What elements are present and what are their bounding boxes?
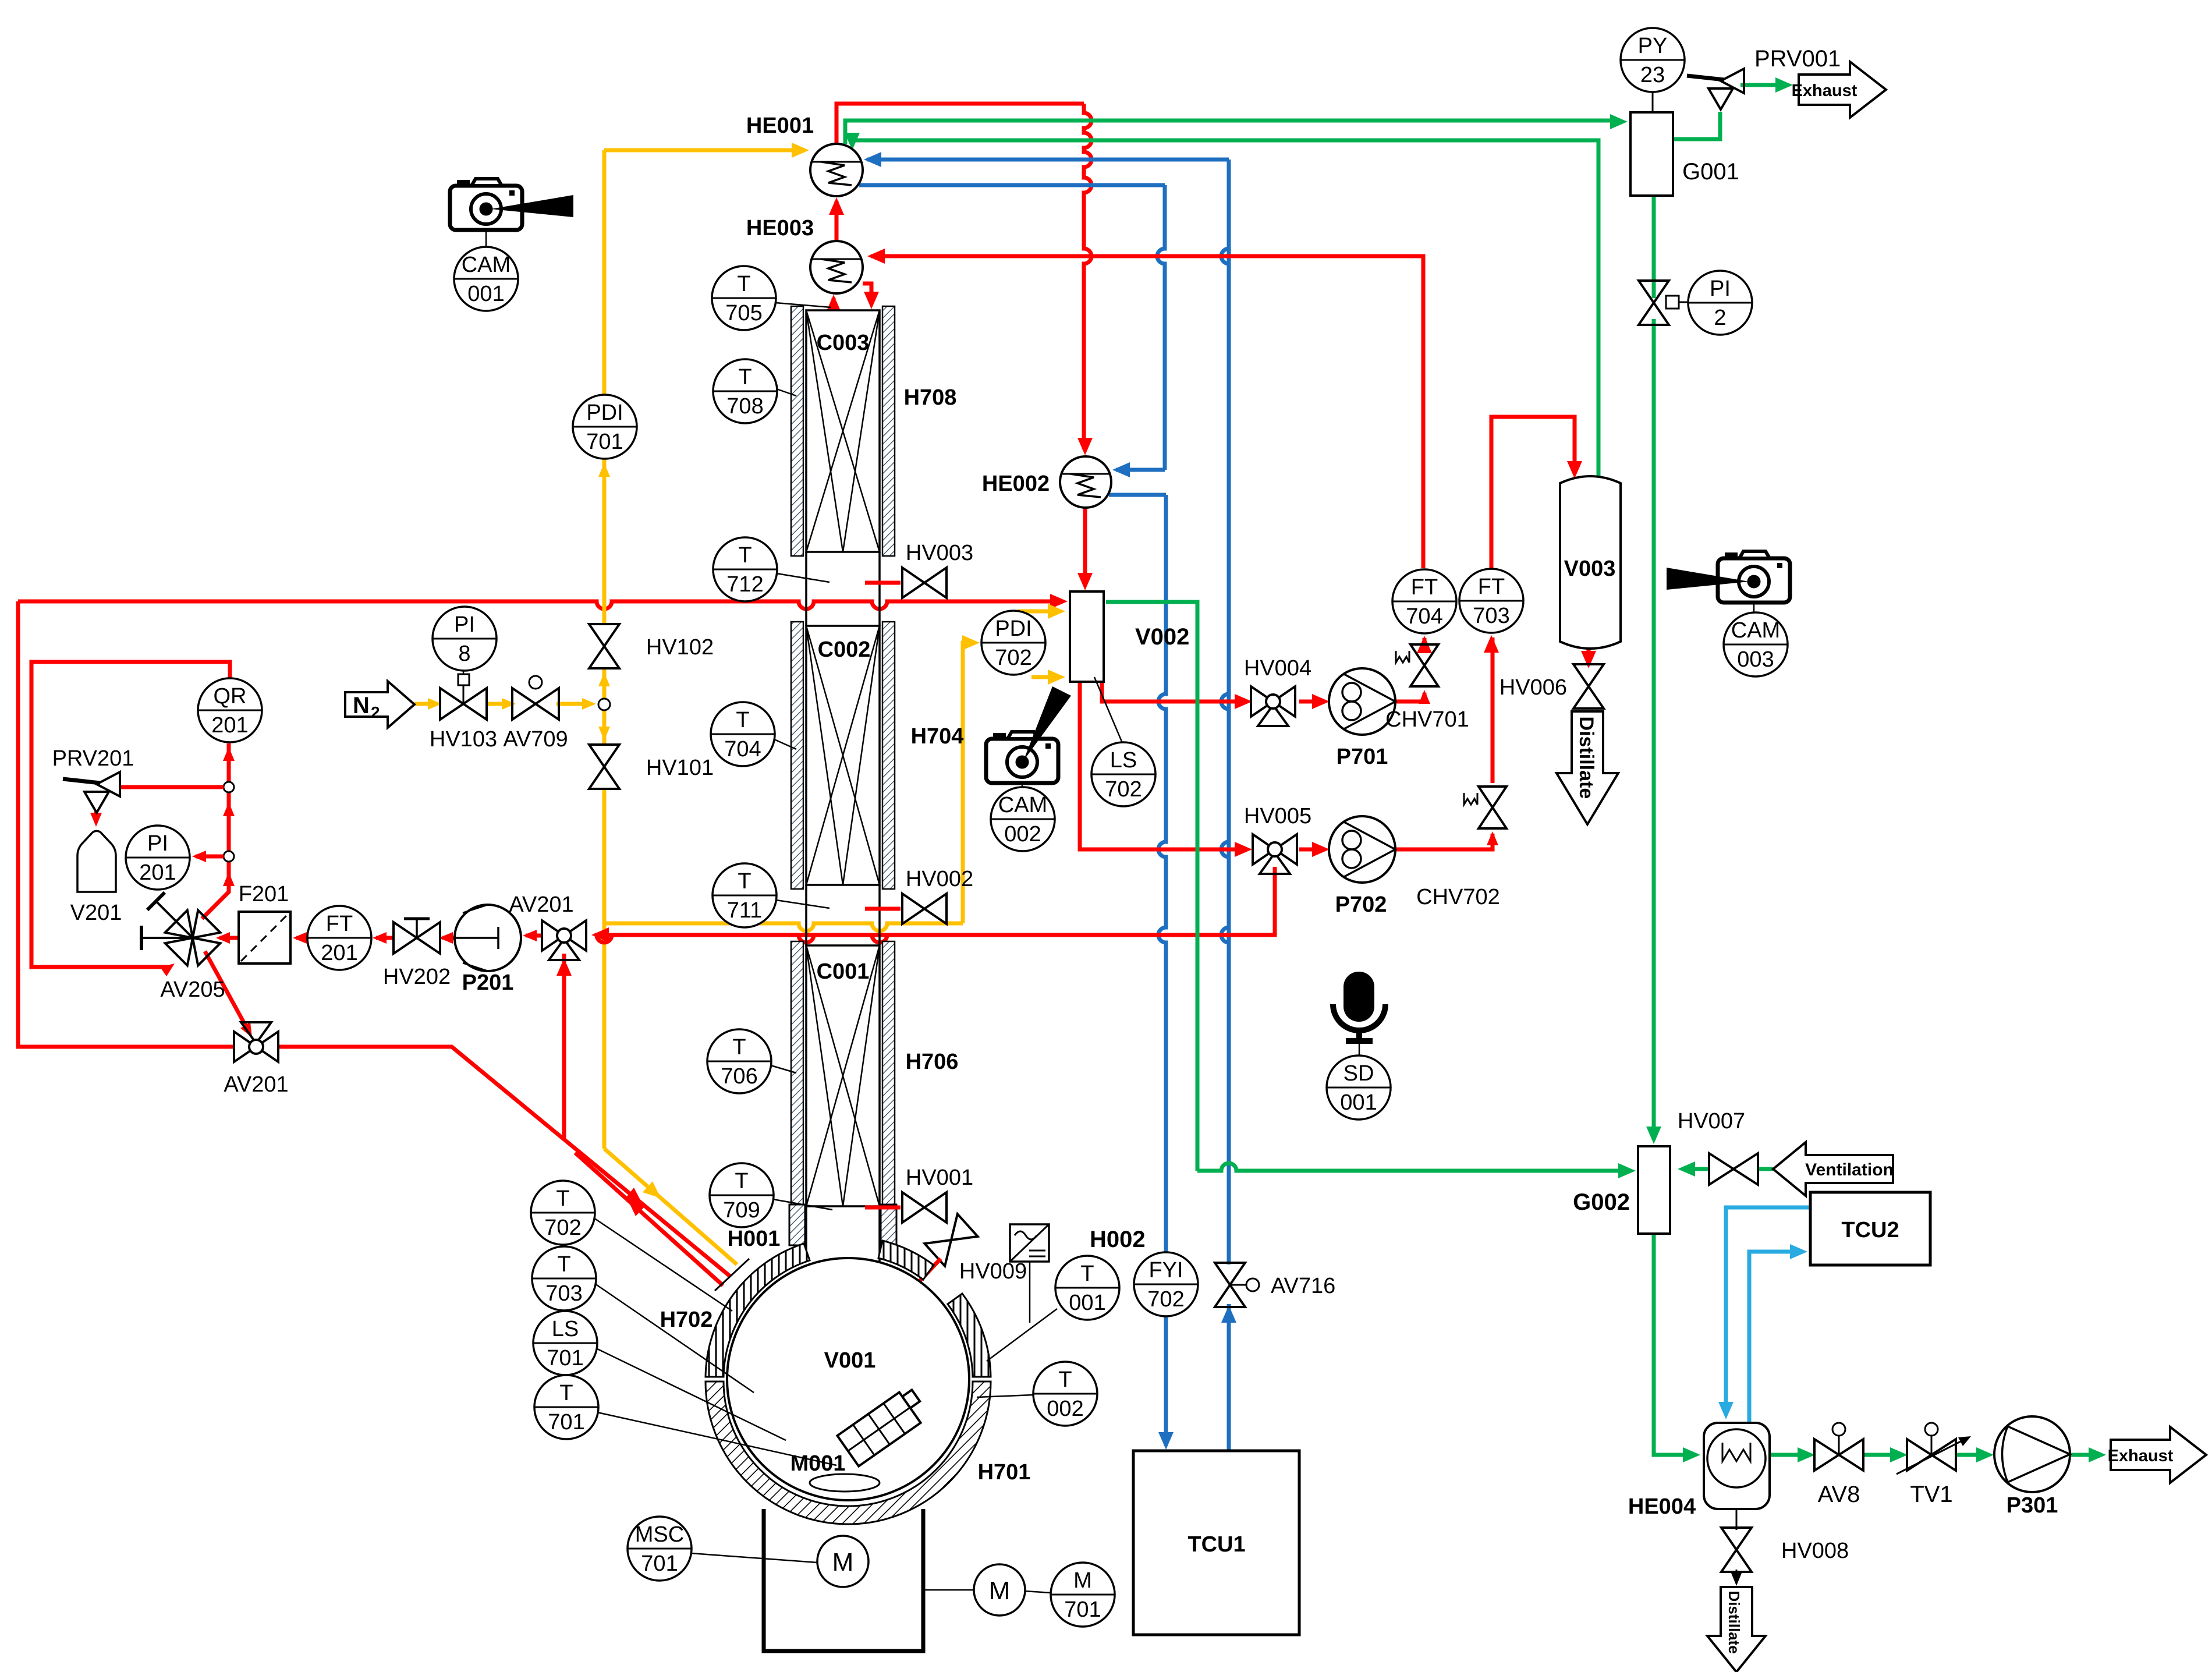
leader T706 xyxy=(771,1065,796,1073)
svg-text:H706: H706 xyxy=(906,1050,959,1074)
leader T703 xyxy=(595,1284,754,1393)
camera CAM002 xyxy=(986,739,1058,783)
svg-text:Distillate: Distillate xyxy=(1575,717,1597,799)
wire yellow vertical below corner xyxy=(602,923,607,1149)
instrument T701 xyxy=(534,1375,598,1439)
svg-text:HV002: HV002 xyxy=(906,867,973,891)
svg-text:H702: H702 xyxy=(660,1308,713,1332)
wire red PRV201 to V201 xyxy=(94,812,98,822)
wire cyan arrow into HE004 top xyxy=(1718,1402,1734,1419)
node junction PI tap xyxy=(224,851,234,862)
heat exchanger HE001 xyxy=(810,144,863,196)
svg-text:HV103: HV103 xyxy=(430,727,497,752)
instrument LS702 xyxy=(1091,742,1155,806)
instrument CAM002 bubble xyxy=(991,787,1055,851)
wire red arrow into V003 xyxy=(1567,461,1582,479)
check valve CHV702 xyxy=(1479,787,1506,807)
valve HV009 xyxy=(924,1214,977,1266)
svg-text:LS: LS xyxy=(1110,748,1137,773)
svg-text:701: 701 xyxy=(1064,1597,1101,1622)
leader LS701 xyxy=(596,1348,786,1440)
svg-text:701: 701 xyxy=(586,430,623,454)
wire yellow N2-HV103 xyxy=(414,702,438,706)
svg-text:C003: C003 xyxy=(817,331,870,355)
instrument PDI702 xyxy=(981,611,1045,675)
svg-text:PRV201: PRV201 xyxy=(52,746,134,771)
svg-text:TCU2: TCU2 xyxy=(1841,1218,1899,1242)
wire green G001 to PRV001 xyxy=(1673,112,1720,139)
svg-text:HE004: HE004 xyxy=(1628,1494,1696,1519)
wire black arrow to Distillate2 xyxy=(1731,1573,1742,1586)
svg-text:PRV001: PRV001 xyxy=(1754,46,1841,72)
svg-text:PI: PI xyxy=(1710,277,1731,301)
wire blue top to HE001 xyxy=(867,158,1229,162)
wire PI8 link xyxy=(463,671,465,674)
svg-text:M: M xyxy=(989,1577,1011,1605)
svg-text:002: 002 xyxy=(1004,822,1041,846)
wire red HE003 to HE001 xyxy=(835,201,839,240)
svg-text:AV709: AV709 xyxy=(503,727,568,752)
instrument SD001 bubble xyxy=(1327,1055,1391,1120)
svg-text:HV005: HV005 xyxy=(1244,804,1311,828)
leader T711 xyxy=(776,900,830,908)
column C001 packed section H706 xyxy=(791,941,803,1210)
valve AV8 xyxy=(1814,1439,1839,1471)
instrument PI201 xyxy=(126,826,190,890)
column wall gap C002-C001 xyxy=(805,885,807,945)
svg-text:P301: P301 xyxy=(2007,1493,2058,1518)
svg-text:HE003: HE003 xyxy=(746,216,814,240)
wire CAM003 link xyxy=(1753,603,1755,612)
wire red arrow into P201 xyxy=(523,930,537,941)
vessel V201 xyxy=(77,831,116,892)
wire red HE001-top riser xyxy=(836,104,1084,144)
wire red arrow into AV201-2 xyxy=(240,1022,252,1037)
svg-text:HV009: HV009 xyxy=(959,1259,1027,1284)
svg-text:702: 702 xyxy=(1147,1287,1184,1312)
valve AV205 multiport xyxy=(159,905,225,970)
leader T001 xyxy=(987,1309,1057,1361)
wire green V002 to G002 xyxy=(1106,602,1197,1171)
wire red V002 to HV004 xyxy=(1102,682,1247,702)
source arrow N2 xyxy=(345,681,414,728)
wire LS702 link xyxy=(1094,677,1122,743)
wire yellow vertical upper xyxy=(602,150,607,395)
motor M xyxy=(817,1536,869,1587)
svg-text:T: T xyxy=(1080,1262,1094,1286)
instrument T705 xyxy=(712,266,776,330)
wire cyan HE004 to TCU2 xyxy=(1749,1252,1802,1423)
column neck walls xyxy=(805,1206,807,1262)
sink Exhaust2 xyxy=(2111,1427,2206,1483)
wire black HE004 to HV008 xyxy=(1736,1509,1738,1530)
wire green G001 riser xyxy=(1652,196,1656,298)
svg-text:M: M xyxy=(832,1548,854,1577)
wire yellow PDI702 to V002 upper xyxy=(1018,610,1061,614)
wire green arrow into G002 top xyxy=(1646,1127,1661,1144)
wire black HV008 to Distillate xyxy=(1736,1570,1738,1579)
instrument T711 xyxy=(712,863,777,927)
svg-text:V001: V001 xyxy=(824,1348,876,1373)
valve AV709 xyxy=(512,688,536,720)
svg-text:MSC: MSC xyxy=(635,1522,684,1547)
heat exchanger HE003 xyxy=(810,241,863,293)
svg-text:HE001: HE001 xyxy=(746,114,814,138)
svg-text:HV102: HV102 xyxy=(646,635,714,660)
svg-text:HV004: HV004 xyxy=(1244,656,1311,681)
wire red arrow on supply xyxy=(625,1188,643,1205)
svg-text:2: 2 xyxy=(1714,306,1726,330)
heater H002 xyxy=(1010,1224,1049,1262)
wire blue arrow into TCU1 xyxy=(1158,1432,1174,1450)
wire red arrow into CHV702 xyxy=(1487,831,1498,845)
svg-text:T: T xyxy=(556,1186,569,1211)
wire red arrow on return xyxy=(628,1199,646,1216)
svg-text:HV008: HV008 xyxy=(1781,1539,1849,1563)
wire red HE002 to V002 xyxy=(1083,508,1087,585)
svg-text:T: T xyxy=(557,1252,570,1277)
wire blue arrow into AV716 xyxy=(1221,1305,1236,1323)
valve AV201-2 xyxy=(234,1032,256,1062)
svg-text:F201: F201 xyxy=(239,882,289,906)
instrument T712 xyxy=(713,537,777,601)
svg-text:T: T xyxy=(736,708,749,732)
svg-text:AV716: AV716 xyxy=(1271,1274,1335,1298)
separator G002 xyxy=(1638,1146,1670,1234)
svg-text:CHV701: CHV701 xyxy=(1385,707,1469,732)
wire cyan arrow into TCU2 xyxy=(1790,1244,1807,1259)
wire red arrow into HV004 xyxy=(1235,694,1252,709)
wire black jacket tick xyxy=(715,1259,749,1291)
column C002 packed section H704 xyxy=(791,622,803,889)
wire green HE001 to G001 xyxy=(845,121,1619,144)
wire green arrow into HE001 xyxy=(845,133,860,150)
instrument SD001 mic xyxy=(1343,972,1374,1022)
column wall gap C003-C002 xyxy=(805,552,807,626)
wire green arrow into G001 xyxy=(1610,114,1628,129)
separator G001 xyxy=(1630,112,1673,196)
wire red arrow into HE001 bottom xyxy=(829,197,844,215)
vessel V003 xyxy=(1560,476,1621,649)
heater block H001 left xyxy=(789,1205,805,1245)
svg-text:Exhaust: Exhaust xyxy=(2108,1447,2174,1465)
valve HV005 xyxy=(1253,834,1275,865)
instrument MSC701 xyxy=(628,1517,692,1581)
svg-text:701: 701 xyxy=(641,1551,678,1576)
wire green PY riser xyxy=(1652,92,1654,112)
svg-text:N: N xyxy=(353,693,370,718)
wire yellow arrow into HE001 xyxy=(792,143,809,158)
leader T704 xyxy=(774,739,796,749)
wire red HV202 to FT201 xyxy=(376,936,395,940)
vessel V001 jacket lower H701 xyxy=(706,1381,991,1524)
wire green Vent to HV007 xyxy=(1758,1167,1773,1171)
svg-text:CAM: CAM xyxy=(462,253,511,277)
vessel V001 jacket upper-right xyxy=(878,1241,934,1280)
motor M coupling xyxy=(974,1564,1025,1616)
svg-text:FYI: FYI xyxy=(1148,1258,1183,1283)
vessel V002 xyxy=(1070,591,1104,682)
wire red CHV701 to FT704 xyxy=(1423,638,1427,642)
svg-text:HV101: HV101 xyxy=(646,756,714,780)
wire red return diagonal xyxy=(575,1153,723,1285)
wire red AV201-1 to P201 xyxy=(526,934,542,938)
source Ventilation xyxy=(1773,1142,1893,1196)
svg-text:001: 001 xyxy=(1069,1291,1105,1315)
wire red arrow into V002 top xyxy=(1077,573,1093,590)
svg-text:M: M xyxy=(1073,1568,1092,1593)
svg-text:G001: G001 xyxy=(1682,159,1739,185)
svg-text:T: T xyxy=(738,365,751,389)
instrument QR201 xyxy=(198,678,262,742)
instrument M701 xyxy=(1051,1563,1115,1627)
svg-text:Exhaust: Exhaust xyxy=(1792,82,1857,100)
valve PRV001 xyxy=(1687,76,1724,80)
wire red arrow into HV006 xyxy=(1581,651,1596,668)
svg-text:FT: FT xyxy=(326,912,353,936)
svg-text:H701: H701 xyxy=(978,1460,1031,1485)
valve HV002 xyxy=(865,907,901,911)
valve HV202 xyxy=(394,922,417,954)
leader T701 xyxy=(597,1412,836,1465)
wire red arrow mid1 xyxy=(223,802,235,816)
instrument T703 xyxy=(532,1246,596,1310)
svg-text:H708: H708 xyxy=(904,385,957,410)
wire blue HE002 out down xyxy=(1109,493,1166,497)
instrument T708 xyxy=(713,359,777,423)
leader MSC701 xyxy=(691,1553,817,1563)
wire green HE004-AV8 xyxy=(1770,1453,1810,1457)
svg-text:702: 702 xyxy=(544,1216,581,1240)
wire yellow up to PDI702 xyxy=(963,643,974,923)
wire red HV005-AV201 col hops xyxy=(595,935,888,943)
wire green arrow into Exhaust2 xyxy=(2089,1447,2106,1462)
wire red feed loop xyxy=(18,601,235,1047)
wire yellow arrow into AV709 xyxy=(502,698,516,710)
wire blue arrow into HE002 xyxy=(1112,462,1130,477)
wire green arrow into P301 xyxy=(1976,1447,1994,1462)
instrument CAM001 bubble xyxy=(454,247,518,311)
svg-text:T: T xyxy=(732,1035,746,1060)
valve HV101 xyxy=(589,745,619,767)
svg-text:AV201: AV201 xyxy=(509,892,573,917)
instrument LS701 xyxy=(533,1311,597,1375)
wire yellow arrow down to HV101 xyxy=(598,727,610,741)
stirrer M001 xyxy=(837,1386,930,1466)
svg-text:001: 001 xyxy=(467,282,504,306)
svg-text:V003: V003 xyxy=(1564,557,1616,581)
wire CAM001 link xyxy=(485,230,487,247)
leader T712 xyxy=(777,573,830,582)
pump P701 xyxy=(1329,668,1395,735)
valve PI2 xyxy=(1639,281,1669,303)
valve HV008 xyxy=(1721,1528,1752,1550)
svg-text:P201: P201 xyxy=(462,970,514,995)
wire red arrow into P702 xyxy=(1312,842,1330,857)
svg-text:PI: PI xyxy=(147,831,168,856)
svg-text:H001: H001 xyxy=(728,1227,781,1251)
wire red arrow into AV205 left xyxy=(160,963,175,976)
instrument CAM003 bubble xyxy=(1724,612,1788,676)
valve TV1 xyxy=(1907,1439,1931,1471)
wire yellow vertical PDI701-HV102 xyxy=(602,459,607,624)
svg-text:T: T xyxy=(738,869,751,894)
instrument T706 xyxy=(707,1029,771,1093)
svg-text:001: 001 xyxy=(1340,1090,1377,1115)
check valve CHV701 xyxy=(1410,644,1438,665)
instrument FT703 xyxy=(1459,569,1523,633)
wire motor link2 xyxy=(1025,1591,1051,1593)
svg-text:P702: P702 xyxy=(1335,892,1387,917)
valve PRV201 xyxy=(63,779,100,783)
leader T002 xyxy=(977,1395,1033,1397)
instrument FT704 xyxy=(1392,569,1456,633)
svg-text:201: 201 xyxy=(321,941,357,965)
valve HV006 xyxy=(1573,664,1604,686)
svg-text:SD: SD xyxy=(1343,1061,1374,1086)
wire yellow PDI702 to V002 lower xyxy=(1031,675,1061,679)
svg-text:706: 706 xyxy=(721,1064,757,1089)
motor box xyxy=(764,1509,923,1651)
wire red C003 to HE003 xyxy=(832,298,836,309)
instrument PI2 xyxy=(1688,271,1752,335)
wire green PRV001 to Exhaust xyxy=(1740,83,1787,87)
wire red tap to PRV201 xyxy=(120,785,224,789)
instrument T704 xyxy=(711,702,775,766)
wire yellow AV709-junction xyxy=(556,702,591,706)
wire red arrow into HE002 xyxy=(1077,438,1093,455)
svg-text:HV006: HV006 xyxy=(1500,675,1567,700)
wire SD001 link xyxy=(1359,1043,1360,1056)
pump P702 xyxy=(1329,816,1395,883)
wire green arrow into G002 right xyxy=(1678,1161,1695,1177)
wire red arrow into C003 xyxy=(864,292,879,309)
wire red AV205 to AV201-2 xyxy=(205,951,249,1032)
instrument PY23 xyxy=(1621,28,1685,92)
svg-text:CAM: CAM xyxy=(998,793,1047,817)
wire red tap to PI201 xyxy=(196,855,224,859)
wire red arrow into V201 xyxy=(90,813,102,827)
stirrer ellipse xyxy=(810,1474,880,1492)
wire yellow arrow into V002 u xyxy=(1048,604,1065,619)
wire blue vertical to FYI702 xyxy=(1158,495,1166,1253)
wire yellow arrow into PDI701 xyxy=(598,463,610,477)
svg-text:P701: P701 xyxy=(1337,745,1388,769)
svg-text:T: T xyxy=(735,1169,748,1193)
node junction N2 xyxy=(598,699,610,710)
svg-text:002: 002 xyxy=(1047,1397,1083,1421)
svg-text:PY: PY xyxy=(1638,34,1668,58)
wire red return riser to AV201-1 xyxy=(562,954,566,1139)
wire red HV009 stub xyxy=(903,1259,941,1298)
svg-text:704: 704 xyxy=(1406,604,1442,629)
wire red P701 to CHV701 xyxy=(1395,693,1424,702)
wire H002 link xyxy=(1029,1262,1031,1323)
wire red arrow into P701 xyxy=(1312,694,1330,709)
svg-text:709: 709 xyxy=(723,1198,760,1223)
svg-text:FT: FT xyxy=(1411,575,1438,600)
wire red arrow into AV201-1 bottom xyxy=(556,958,572,976)
wire red arrow into QR201 xyxy=(223,747,235,761)
svg-text:AV8: AV8 xyxy=(1818,1482,1860,1507)
valve AV716 xyxy=(1215,1263,1245,1285)
wire red V002 to HV005 xyxy=(1080,682,1247,849)
wire green G002 to HE004 xyxy=(1654,1234,1695,1455)
wire green G002 horiz (hop) xyxy=(1197,1163,1630,1171)
wire motor link1 xyxy=(923,1589,974,1591)
wire red arrow mid2 xyxy=(223,872,235,886)
wire red arrow into FT703 xyxy=(1484,635,1499,653)
instrument T709 xyxy=(710,1163,774,1227)
wire yellow HV102-junction xyxy=(602,668,607,699)
unit TCU2 xyxy=(1810,1192,1930,1265)
valve HV007 xyxy=(1709,1153,1734,1185)
wire red AV205 riser to QR201 xyxy=(202,743,229,919)
wire red P201 to HV202 xyxy=(442,936,455,940)
vessel V001 flask body xyxy=(727,1258,969,1500)
valve HV102 xyxy=(589,624,619,646)
wire red V003 to HV006 xyxy=(1587,647,1591,664)
svg-text:201: 201 xyxy=(139,860,176,885)
wire yellow arrow on diagonal xyxy=(643,1181,661,1198)
svg-text:H704: H704 xyxy=(911,724,964,749)
svg-text:T: T xyxy=(559,1381,573,1405)
instrument PDI701 xyxy=(573,395,637,459)
instrument PI8 xyxy=(433,607,497,671)
svg-text:712: 712 xyxy=(726,572,763,597)
svg-text:C002: C002 xyxy=(818,637,871,662)
wire green TV1-P301 xyxy=(1956,1453,1988,1457)
wire red arrow into HV202 xyxy=(439,932,453,944)
wire yellow arrow up to HV102 xyxy=(598,672,610,686)
svg-text:H002: H002 xyxy=(1090,1227,1146,1252)
svg-text:V002: V002 xyxy=(1135,624,1189,650)
wire red arrow into HE003 xyxy=(867,249,885,264)
instrument FT201 xyxy=(307,906,371,970)
heat exchanger HE002 xyxy=(1060,456,1111,508)
svg-text:708: 708 xyxy=(726,394,763,419)
wire red FT703 to V003 xyxy=(1491,417,1575,569)
svg-text:CAM: CAM xyxy=(1731,618,1780,643)
leader T702 xyxy=(594,1218,732,1311)
wire blue HE001 to HE002 xyxy=(859,183,1165,187)
svg-text:2: 2 xyxy=(371,703,380,721)
wire green arrow into TV1 xyxy=(1890,1447,1908,1462)
sink Distillate2 xyxy=(1707,1587,1766,1672)
svg-text:T: T xyxy=(737,272,750,296)
svg-text:HV001: HV001 xyxy=(906,1166,973,1190)
svg-text:702: 702 xyxy=(1105,777,1142,802)
wire red FT201 to F201 xyxy=(296,936,307,940)
wire green V003 to HE001 xyxy=(852,140,1598,477)
valve HV004 xyxy=(1251,686,1273,717)
svg-text:TV1: TV1 xyxy=(1910,1482,1952,1507)
wire red P702 to CHV702 xyxy=(1395,834,1493,849)
wire red arrow into FT704 xyxy=(1417,636,1432,653)
wire blue FYI to TCU1 xyxy=(1164,1316,1168,1446)
sink Exhaust1 xyxy=(1799,62,1886,118)
svg-text:703: 703 xyxy=(545,1281,582,1306)
svg-text:LS: LS xyxy=(552,1317,579,1341)
wire yellow horizontal (hops) xyxy=(604,923,963,931)
wire red inner loop xyxy=(31,662,230,967)
wire red arrow into CHV701 xyxy=(1419,690,1430,704)
wire yellow arrow into HV103 xyxy=(428,698,442,710)
pump P301 xyxy=(1994,1416,2070,1492)
svg-text:HV003: HV003 xyxy=(906,541,973,565)
svg-text:704: 704 xyxy=(724,737,761,761)
wire red HE003 to C003 return xyxy=(863,284,871,303)
